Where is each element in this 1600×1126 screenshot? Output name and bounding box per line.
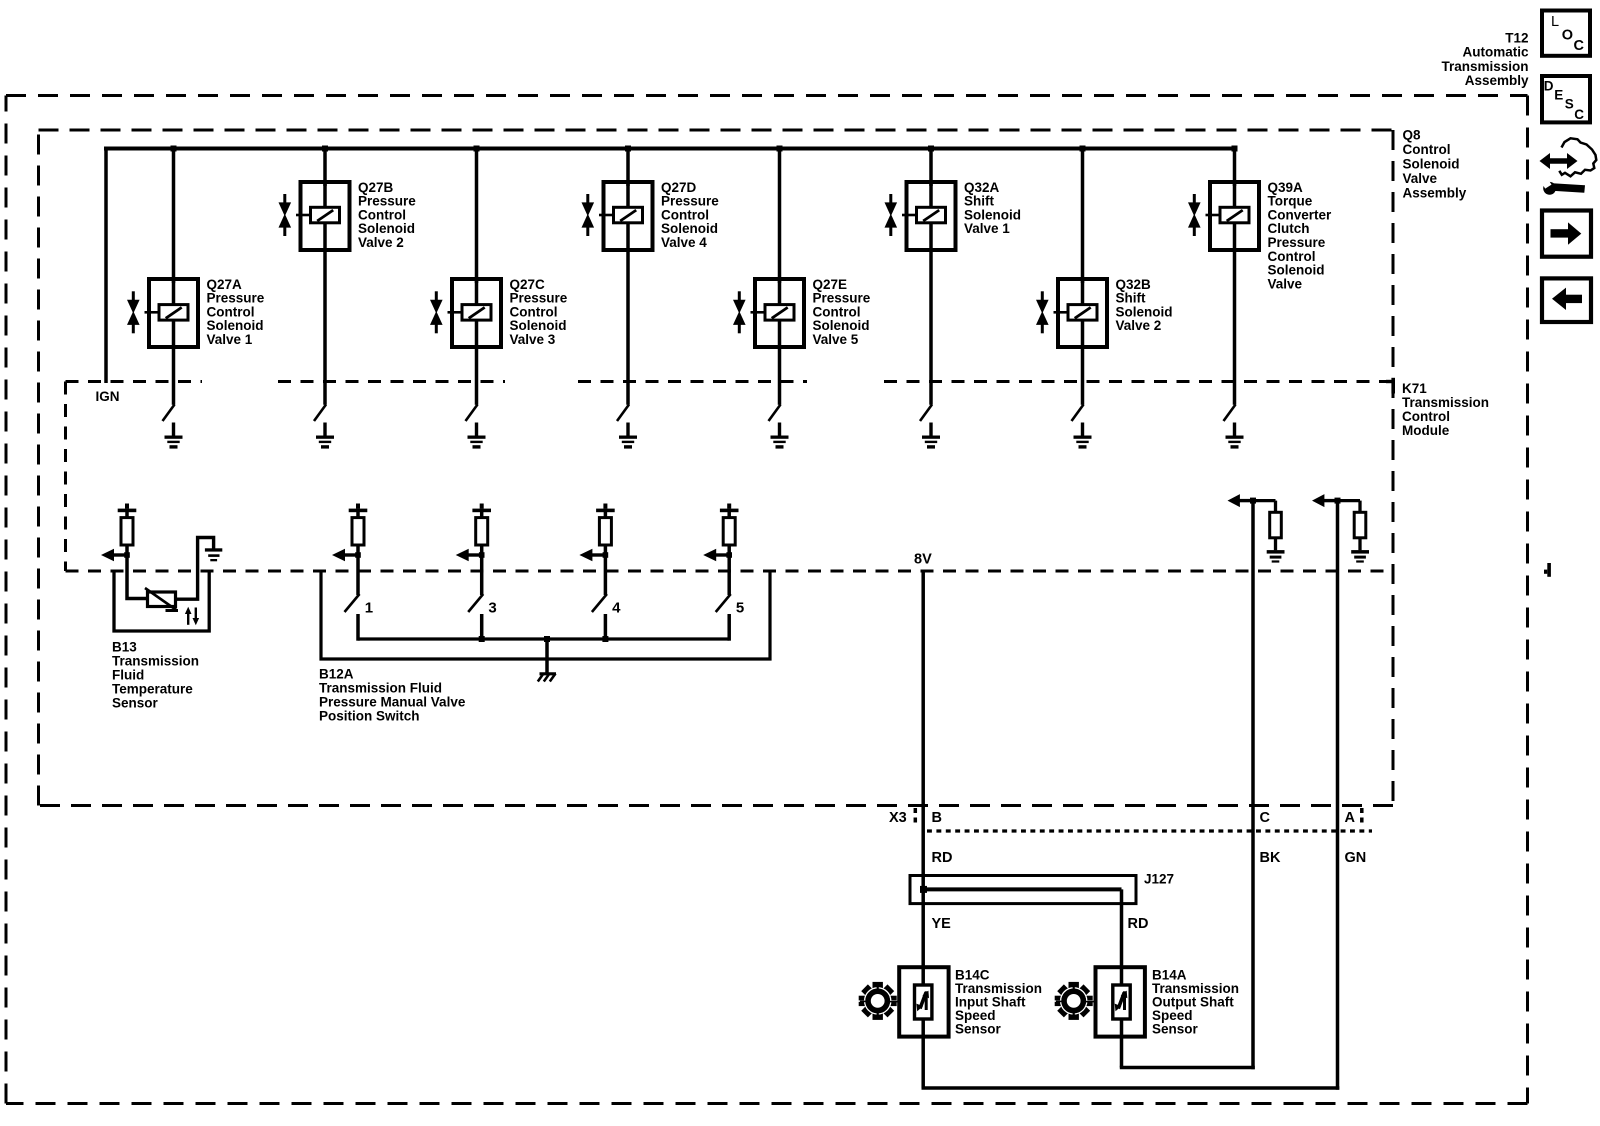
TCM pin resistor for B12A switch 4	[596, 504, 615, 556]
svg-text:Solenoid: Solenoid	[1116, 304, 1173, 319]
svg-text:Sensor: Sensor	[112, 695, 159, 710]
svg-text:Solenoid: Solenoid	[1403, 156, 1460, 171]
driver switch for Q32A	[920, 405, 932, 422]
svg-text:Q27D: Q27D	[661, 180, 697, 195]
svg-text:Module: Module	[1402, 423, 1450, 438]
wire to switch 1	[356, 555, 360, 595]
svg-text:Valve: Valve	[1403, 171, 1438, 186]
wire RD/YE from TCM 8V to sensors	[921, 571, 925, 1088]
wire from Q27B to TCM driver switch	[323, 250, 327, 405]
svg-text:S: S	[1565, 97, 1574, 112]
svg-text:Solenoid: Solenoid	[207, 318, 264, 333]
wire from Q27C to TCM driver switch	[475, 347, 479, 405]
B12A switch housing box	[321, 571, 770, 659]
solenoid Q39A	[1188, 182, 1259, 250]
svg-text:Valve 1: Valve 1	[207, 332, 253, 347]
junction on ignition bus at Q32B branch	[1080, 146, 1086, 152]
svg-text:Valve 1: Valve 1	[964, 221, 1010, 236]
wire from Q32A to TCM driver switch	[929, 250, 933, 405]
svg-text:Q27A: Q27A	[207, 277, 243, 292]
svg-text:Pressure: Pressure	[661, 194, 719, 209]
wire from Q27E to TCM driver switch	[778, 347, 782, 405]
svg-text:Sensor: Sensor	[1152, 1021, 1199, 1036]
label B14A Transmission Output Shaft Speed Sensor	[1152, 967, 1239, 1036]
solenoid Q27B	[279, 182, 350, 250]
svg-text:L: L	[1551, 14, 1559, 30]
svg-text:Control: Control	[207, 304, 255, 319]
ignition supply bus wire	[104, 147, 1235, 151]
svg-text:Control: Control	[1402, 409, 1450, 424]
driver switch for Q27C	[466, 405, 478, 422]
ground	[1226, 423, 1244, 449]
pin B of X3	[932, 810, 942, 826]
svg-text:Automatic: Automatic	[1462, 45, 1528, 60]
driver switch for Q27D	[617, 405, 629, 422]
chassis ground	[538, 674, 556, 682]
svg-text:Valve 3: Valve 3	[510, 332, 556, 347]
svg-text:B13: B13	[112, 639, 137, 654]
icon pointing-hand with double arrow	[1540, 138, 1597, 194]
svg-text:Sensor: Sensor	[955, 1021, 1002, 1036]
svg-text:Transmission: Transmission	[112, 653, 199, 668]
svg-text:Pressure: Pressure	[510, 291, 568, 306]
solenoid Q32A	[885, 182, 956, 250]
svg-text:4: 4	[612, 600, 621, 617]
label B14C Transmission Input Shaft Speed Sensor	[955, 967, 1042, 1036]
return wire from B14A to BK	[1120, 1066, 1255, 1070]
ground	[922, 423, 940, 449]
speed sensor B14C	[899, 967, 948, 1036]
ground	[1074, 423, 1092, 449]
label T12 Automatic Transmission Assembly	[1441, 30, 1529, 88]
wire from ignition bus to solenoid Q27C	[475, 149, 479, 284]
wire GN from TCM pin A to B14C return	[1336, 501, 1340, 1090]
wire from ignition bus to solenoid Q27E	[778, 149, 782, 284]
svg-text:Valve 5: Valve 5	[813, 332, 859, 347]
wire BK from TCM pin C to B14A	[1251, 501, 1255, 1070]
return wire from B14C to GN	[922, 1086, 1340, 1090]
svg-text:J127: J127	[1144, 872, 1174, 887]
Q8 Control Solenoid Valve Assembly boundary (dashed)	[39, 130, 1394, 806]
svg-text:Solenoid: Solenoid	[661, 221, 718, 236]
signal arrow into TCM (GN wire)	[1312, 494, 1341, 507]
svg-text:Control: Control	[1403, 142, 1451, 157]
wire from Q27D to TCM driver switch	[626, 250, 630, 405]
solenoid Q27E	[733, 279, 804, 347]
svg-text:1: 1	[365, 600, 373, 617]
label connector X3	[889, 810, 907, 826]
svg-text:O: O	[1562, 28, 1573, 44]
svg-text:D: D	[1544, 79, 1554, 94]
svg-text:Control: Control	[510, 304, 558, 319]
svg-text:Valve 2: Valve 2	[358, 235, 404, 250]
svg-text:Q27C: Q27C	[510, 277, 546, 292]
label K71 Transmission Control Module	[1402, 381, 1489, 438]
svg-text:Assembly: Assembly	[1465, 73, 1529, 88]
ground	[165, 423, 183, 449]
label Q27C	[510, 277, 568, 347]
ground	[771, 423, 789, 449]
svg-text:Clutch: Clutch	[1268, 221, 1310, 236]
svg-text:Pressure: Pressure	[358, 194, 416, 209]
svg-text:Q27B: Q27B	[358, 180, 394, 195]
svg-text:Transmission: Transmission	[1402, 395, 1489, 410]
signal arrow into TCM (BK wire)	[1228, 494, 1257, 507]
junction on ignition bus at Q39A branch	[1232, 146, 1238, 152]
svg-text:Shift: Shift	[964, 194, 994, 209]
gear rotor at B14A	[1055, 982, 1096, 1020]
icon DESC box	[1542, 76, 1590, 122]
svg-text:C: C	[1574, 107, 1584, 122]
svg-text:C: C	[1574, 38, 1585, 54]
resistor in TCM (BK input)	[1270, 512, 1282, 550]
svg-text:Valve: Valve	[1268, 276, 1303, 291]
svg-text:GN: GN	[1345, 850, 1367, 866]
common bus bar inside B12A	[358, 636, 729, 642]
TCM pin resistor for B12A switch 1	[349, 504, 368, 556]
wire to switch 5	[727, 555, 731, 595]
label switch position 3	[488, 600, 496, 617]
svg-text:5: 5	[736, 600, 744, 617]
wire from ignition bus to solenoid Q39A	[1233, 149, 1237, 187]
driver switch for Q39A	[1224, 405, 1236, 422]
svg-text:RD: RD	[932, 850, 953, 866]
svg-text:Control: Control	[813, 304, 861, 319]
signal arrow into TCM (switch 3)	[456, 549, 485, 562]
svg-text:Solenoid: Solenoid	[510, 318, 567, 333]
svg-text:Transmission Fluid: Transmission Fluid	[319, 680, 442, 695]
wire from J127 to B14A	[1120, 889, 1124, 1067]
svg-text:Control: Control	[661, 207, 709, 222]
svg-text:Valve 4: Valve 4	[661, 235, 707, 250]
svg-text:Assembly: Assembly	[1403, 185, 1467, 200]
wire from thermistor to ground (B13)	[176, 538, 214, 600]
icon LOC box	[1542, 11, 1590, 56]
signal arrow into TCM (B13)	[101, 549, 130, 562]
svg-text:Fluid: Fluid	[112, 667, 144, 682]
label J127	[1144, 872, 1174, 887]
junction on ignition bus at Q27B branch	[322, 146, 328, 152]
gear rotor at B14C	[859, 982, 900, 1020]
wire from ignition bus to solenoid Q27B	[323, 149, 327, 187]
pin C of X3	[1260, 810, 1271, 826]
label Q27D	[661, 180, 719, 250]
wire color GN	[1345, 850, 1367, 866]
driver switch for Q32B	[1072, 405, 1084, 422]
svg-text:IGN: IGN	[96, 389, 120, 404]
svg-text:Temperature: Temperature	[112, 681, 193, 696]
wire from B12A common to chassis ground	[545, 639, 549, 673]
svg-text:E: E	[1554, 87, 1563, 102]
junction on ignition bus at Q27E branch	[777, 146, 783, 152]
svg-text:Q27E: Q27E	[813, 277, 848, 292]
solenoid Q27C	[430, 279, 501, 347]
TCM pin resistor for B13 signal	[118, 504, 137, 556]
wire color RD (to B14A)	[1128, 916, 1149, 932]
ground	[468, 423, 486, 449]
wire from TCM to B13 thermistor	[127, 555, 148, 599]
K71 Transmission Control Module boundary (dashed)	[66, 378, 1396, 571]
wire from ignition bus to solenoid Q32B	[1081, 149, 1085, 284]
pin A of X3	[1345, 810, 1356, 826]
svg-text:Pressure Manual Valve: Pressure Manual Valve	[319, 694, 466, 709]
wire from ignition bus to solenoid Q27D	[626, 149, 630, 187]
junction on ignition bus at Q32A branch	[928, 146, 934, 152]
svg-text:C: C	[1260, 810, 1271, 826]
bidirectional arrows inside B13	[185, 607, 199, 625]
svg-text:RD: RD	[1128, 916, 1149, 932]
ground	[1267, 550, 1285, 563]
driver switch for Q27E	[769, 405, 781, 422]
junction on ignition bus at Q27A branch	[171, 146, 177, 152]
switch 4 of B12A	[592, 594, 607, 641]
label switch position 5	[736, 600, 744, 617]
svg-text:BK: BK	[1260, 850, 1281, 866]
svg-text:Torque: Torque	[1268, 194, 1313, 209]
svg-text:B: B	[932, 810, 942, 826]
svg-text:Solenoid: Solenoid	[1268, 263, 1325, 278]
svg-text:Solenoid: Solenoid	[813, 318, 870, 333]
node IGN	[96, 389, 120, 404]
wire from Q27A to TCM driver switch	[172, 347, 176, 405]
svg-text:Pressure: Pressure	[1268, 235, 1326, 250]
wire to pull-up resistor (BK)	[1251, 501, 1276, 513]
label Q27E	[813, 277, 871, 347]
svg-text:X3: X3	[889, 810, 907, 826]
splice pack J127	[910, 876, 1136, 904]
wire from ignition bus to solenoid Q32A	[929, 149, 933, 187]
label B12A Transmission Fluid Pressure Manual Valve Position Switch	[319, 666, 466, 723]
svg-text:YE: YE	[932, 916, 952, 932]
wire from ignition bus to solenoid Q27A	[172, 149, 176, 284]
label Q39A	[1268, 180, 1333, 292]
ground	[316, 423, 334, 449]
solenoid Q27D	[582, 182, 653, 250]
svg-text:Q32A: Q32A	[964, 180, 1000, 195]
wire color YE	[932, 916, 952, 932]
svg-text:K71: K71	[1402, 381, 1427, 396]
thermistor element of B13	[145, 588, 178, 611]
svg-text:T12: T12	[1505, 30, 1528, 45]
svg-text:Position Switch: Position Switch	[319, 708, 420, 723]
wire to pull-up resistor (GN)	[1336, 501, 1361, 513]
node 8V	[914, 551, 932, 567]
svg-text:Shift: Shift	[1116, 291, 1146, 306]
speed sensor B14A	[1096, 967, 1145, 1036]
icon forward arrow box	[1542, 211, 1591, 257]
svg-text:Q32B: Q32B	[1116, 277, 1152, 292]
junction on ignition bus at Q27D branch	[625, 146, 631, 152]
svg-text:Pressure: Pressure	[813, 291, 871, 306]
svg-text:Q39A: Q39A	[1268, 180, 1304, 195]
svg-text:Solenoid: Solenoid	[964, 207, 1021, 222]
label switch position 1	[365, 600, 373, 617]
label switch position 4	[612, 600, 621, 617]
solenoid Q32B	[1036, 279, 1107, 347]
junction on ignition bus at Q27C branch	[474, 146, 480, 152]
switch 3 of B12A	[468, 594, 483, 641]
svg-text:Control: Control	[358, 207, 406, 222]
svg-text:Control: Control	[1268, 249, 1316, 264]
label Q8 Control Solenoid Valve Assembly	[1403, 127, 1467, 200]
svg-text:Transmission: Transmission	[1441, 59, 1528, 74]
solenoid Q27A	[127, 279, 198, 347]
wire IGN feed	[104, 147, 108, 384]
svg-text:Q8: Q8	[1403, 127, 1422, 142]
wire from Q32B to TCM driver switch	[1081, 347, 1085, 405]
label B13 Transmission Fluid Temperature Sensor	[112, 639, 199, 710]
wire color RD	[932, 850, 953, 866]
boundary grid tick on T12 border	[1544, 563, 1551, 577]
svg-text:Pressure: Pressure	[207, 291, 265, 306]
driver switch for Q27B	[314, 405, 326, 422]
resistor in TCM (GN input)	[1354, 512, 1366, 550]
svg-text:Converter: Converter	[1268, 207, 1333, 222]
B13 sensor housing box	[114, 571, 209, 631]
driver switch for Q27A	[163, 405, 175, 422]
wire to switch 4	[604, 555, 608, 595]
wire from Q39A to TCM driver switch	[1233, 250, 1237, 405]
switch 1 of B12A	[345, 594, 360, 641]
svg-text:Solenoid: Solenoid	[358, 221, 415, 236]
label Q27A	[207, 277, 265, 347]
TCM pin resistor for B12A switch 3	[472, 504, 491, 556]
label Q32B	[1116, 277, 1173, 333]
ground	[619, 423, 637, 449]
svg-text:A: A	[1345, 810, 1356, 826]
ground	[1351, 550, 1369, 563]
svg-text:8V: 8V	[914, 551, 932, 567]
svg-text:3: 3	[488, 600, 496, 617]
wire color BK	[1260, 850, 1281, 866]
signal arrow into TCM (switch 1)	[332, 549, 361, 562]
svg-text:Valve 2: Valve 2	[1116, 318, 1162, 333]
svg-text:B12A: B12A	[319, 666, 354, 681]
icon back arrow box	[1542, 278, 1591, 322]
label Q32A	[964, 180, 1021, 236]
signal arrow into TCM (switch 4)	[579, 549, 608, 562]
TCM pin resistor for B12A switch 5	[720, 504, 739, 556]
switch 5 of B12A	[716, 594, 731, 641]
ground	[205, 548, 222, 561]
label Q27B	[358, 180, 416, 250]
signal arrow into TCM (switch 5)	[703, 549, 732, 562]
connector X3 row	[915, 808, 1372, 831]
wire to switch 3	[480, 555, 484, 595]
